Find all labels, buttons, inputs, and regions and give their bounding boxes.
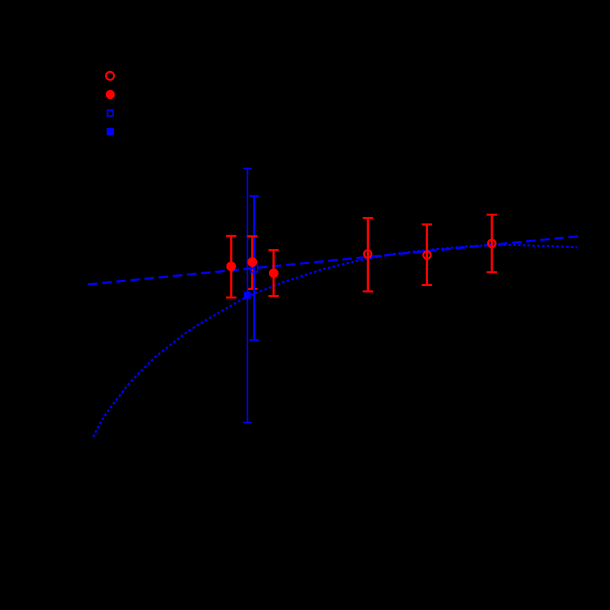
red error bar 2 (drawn first, under blue bars) (247, 236, 257, 289)
legend marker: blue filled square (107, 128, 114, 135)
red filled point 2 (247, 257, 257, 267)
red error bar 2 top cap (redrawn over blue) (247, 235, 257, 237)
legend marker: red filled circle (106, 90, 115, 99)
red open point 4 (364, 250, 372, 258)
red error bar 3 (268, 250, 278, 296)
blue dashed model line (88, 236, 578, 284)
red open point 6 (488, 240, 496, 248)
blue thick error bar (249, 196, 259, 340)
red error bar 6 (487, 215, 497, 273)
red open point 5 (423, 251, 431, 259)
legend marker: blue open square (108, 110, 114, 116)
blue thin error bar (tall) (243, 168, 252, 422)
blue open square point (251, 265, 258, 272)
blue dotted model curve (93, 245, 577, 437)
blue filled square point (244, 292, 251, 299)
legend marker: red open circle (106, 72, 114, 80)
red error bar 4 (363, 218, 373, 291)
red error bar 5 (422, 224, 432, 285)
red filled point 1 (226, 261, 236, 271)
red filled point 3 (269, 268, 279, 278)
red error bar 1 (226, 236, 236, 298)
